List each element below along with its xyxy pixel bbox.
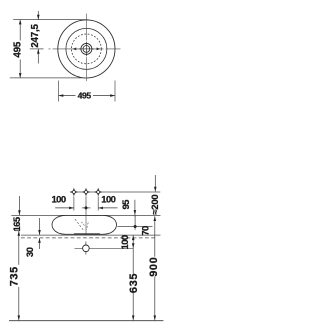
- dim 100 right line: [98, 207, 117, 209]
- faucet 3 stem: [97, 196, 99, 210]
- dim 735 top arrowhead: [18, 231, 21, 236]
- vertical centerline: [85, 14, 87, 84]
- dim 30 lower arrowhead: [38, 238, 41, 243]
- dim 247,5 bottom arrowhead: [37, 49, 40, 54]
- dim 635 stem upper: [132, 248, 134, 273]
- counter top line: [21, 234, 161, 236]
- horizontal centerline: [49, 48, 121, 50]
- dim 635 stem lower: [132, 292, 134, 320]
- bowl hidden drain slant left: [75, 219, 84, 231]
- drain crosshair vertical tick: [85, 42, 87, 57]
- dim 100 middle bar: [82, 207, 91, 209]
- dim 100 left line: [55, 207, 74, 209]
- drain outer circle: [81, 43, 92, 54]
- dim 247,5 upper stem: [37, 11, 39, 20]
- drain level line: [75, 247, 134, 249]
- dashed bolt circle: [72, 34, 102, 64]
- rim level line: [11, 214, 160, 216]
- dim 70 dot marker: [134, 225, 137, 228]
- bowl bottom thick segment: [74, 233, 100, 235]
- svg-text:100: 100: [51, 194, 65, 205]
- svg-text:95: 95: [121, 199, 132, 210]
- svg-text:100: 100: [101, 195, 115, 206]
- svg-text:247,5: 247,5: [30, 23, 41, 47]
- dim 95 arrowhead: [134, 210, 137, 215]
- drain vertical line: [85, 242, 87, 255]
- dim 495 down arrowhead: [19, 73, 22, 78]
- svg-text:735: 735: [9, 266, 21, 286]
- dim 30 upper stem: [39, 218, 41, 235]
- svg-text:≈200: ≈200: [150, 194, 161, 214]
- faucet cross 2: [82, 188, 90, 197]
- dim 165 stem: [18, 196, 20, 215]
- dim 495 up arrowhead: [19, 20, 22, 25]
- dim 95 stem: [134, 200, 136, 217]
- dim 100 vertical bottom arrowhead: [132, 243, 135, 248]
- dim 735 stem: [18, 231, 20, 265]
- dim 100 vertical stem: [132, 235, 134, 248]
- svg-text:30: 30: [25, 247, 36, 257]
- dim 735 stem lower: [18, 287, 20, 320]
- floor line: [9, 320, 163, 322]
- dim 100 middle diamond: [84, 206, 88, 210]
- faucet cross 1: [70, 188, 78, 197]
- bottom dim right extension line: [114, 81, 116, 102]
- bottom extension line: [10, 77, 89, 79]
- dim 30 upper arrowhead: [38, 230, 41, 235]
- basin inner rim circle: [66, 28, 107, 69]
- top extension line: [13, 19, 88, 21]
- dim 100 left arrowhead: [69, 207, 74, 210]
- dim 635 floor arrowhead: [132, 316, 135, 321]
- bottom dim line left part: [59, 95, 76, 97]
- bowl hidden drain cup: [82, 222, 86, 226]
- bottom dim left arrowhead: [59, 94, 64, 97]
- dim 165 bottom tick: [15, 230, 20, 232]
- svg-text:495: 495: [78, 90, 92, 100]
- basin outer rim circle: [58, 20, 115, 78]
- svg-text:495: 495: [13, 41, 24, 57]
- dim 735 floor arrowhead: [18, 316, 21, 321]
- faucet 2 stem: [85, 196, 87, 215]
- dim approx200 top arrowhead: [154, 187, 157, 192]
- bottom dim line right part: [93, 95, 115, 97]
- bottom dim right arrowhead: [110, 94, 115, 97]
- dim 247,5 lower stem: [37, 49, 39, 64]
- dim 495 left stem lower: [19, 60, 21, 78]
- faucet centerline: [70, 191, 160, 193]
- svg-text:165: 165: [12, 216, 23, 231]
- faucet cross 3: [94, 188, 102, 197]
- bowl center line: [85, 215, 87, 234]
- dim 900 stem upper: [154, 216, 156, 257]
- dim 900 up arrowhead: [154, 216, 157, 221]
- washbowl outline: [52, 215, 117, 234]
- svg-text:635: 635: [128, 273, 140, 293]
- svg-text:70: 70: [141, 226, 152, 236]
- dim 100 right arrowhead: [98, 207, 103, 210]
- svg-text:100: 100: [120, 235, 131, 249]
- drain outlet circle: [83, 245, 90, 252]
- dim 70 line: [117, 226, 152, 228]
- dim approx200 top stem: [154, 175, 156, 192]
- dim 30 lower stem: [39, 238, 41, 249]
- dashed circle left arrow: [72, 48, 76, 51]
- drain crosshair horizontal tick: [79, 48, 95, 50]
- dim 165 arrowhead: [18, 210, 21, 215]
- bowl hidden drain slant right: [86, 223, 88, 231]
- dim 900 stem lower: [154, 276, 156, 320]
- faucet 1 stem: [73, 196, 75, 210]
- dim 100 vertical top arrowhead: [132, 235, 135, 240]
- dim 900 floor arrowhead: [154, 316, 157, 321]
- svg-text:900: 900: [148, 257, 160, 277]
- centre level tick: [30, 48, 44, 50]
- dim 247,5 top arrowhead: [37, 15, 40, 20]
- dim 495 left stem upper: [19, 20, 21, 41]
- counter underside dashed line: [21, 237, 155, 239]
- bottom dim left extension line: [58, 81, 60, 102]
- dashed circle right arrow: [97, 48, 101, 51]
- drain inner circle: [83, 46, 90, 53]
- dim 70 stem: [134, 215, 136, 229]
